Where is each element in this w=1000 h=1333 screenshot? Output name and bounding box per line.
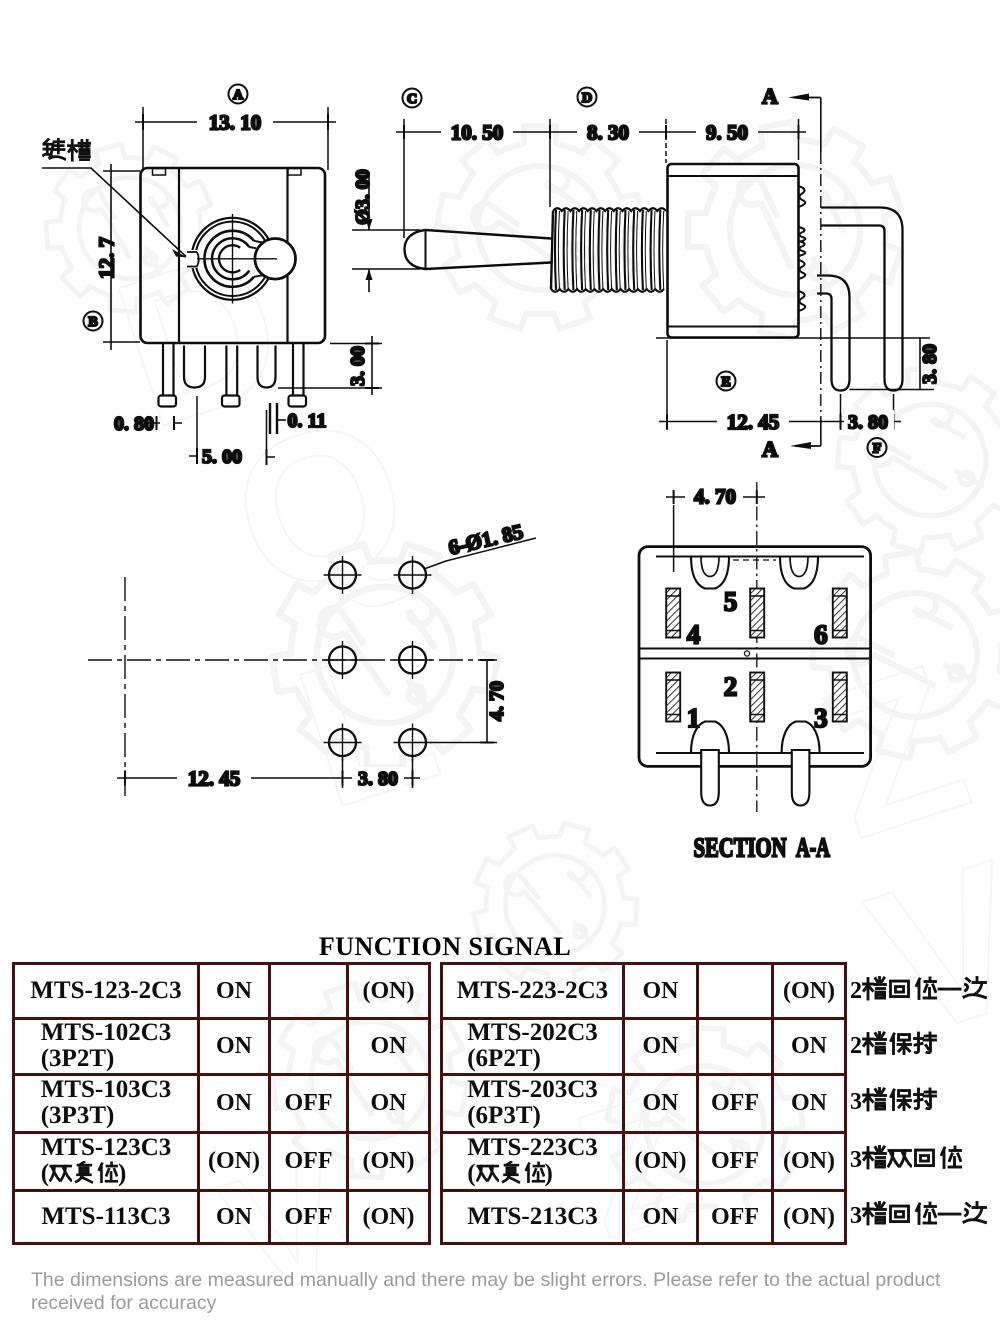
svg-text:F: F xyxy=(873,441,882,456)
datum label B circled xyxy=(84,312,103,331)
svg-text:1: 1 xyxy=(687,703,701,733)
upper pin slots xyxy=(691,557,729,589)
section view body outline xyxy=(639,547,871,767)
svg-text:3. 80: 3. 80 xyxy=(358,768,398,790)
datum label D circled xyxy=(578,88,597,107)
dimension 5.00 post spacing xyxy=(189,396,275,468)
datum label E circled xyxy=(717,372,736,391)
pin tip reference line xyxy=(850,389,935,391)
keyway notch xyxy=(185,250,199,268)
far right-angle pin xyxy=(821,208,903,391)
svg-text:SECTION: SECTION xyxy=(694,832,787,862)
svg-text:C: C xyxy=(407,92,417,107)
svg-text:0. 80: 0. 80 xyxy=(114,413,154,435)
footer note xyxy=(31,1269,981,1315)
datum label A circled xyxy=(229,85,248,104)
svg-text:2: 2 xyxy=(724,671,738,701)
keyway Chinese label (jian cao) xyxy=(43,139,90,160)
svg-text:12. 45: 12. 45 xyxy=(188,766,241,790)
side view switch body xyxy=(668,164,799,338)
SECTION A-A title xyxy=(694,832,831,862)
section hatched contacts rows xyxy=(666,589,680,638)
lower mounting posts xyxy=(691,722,729,806)
dimension 3.00 pin length xyxy=(278,336,382,395)
front view dimension 13.10 with extension lines xyxy=(135,107,336,170)
threaded bushing xyxy=(551,208,666,292)
section arrow A top xyxy=(762,84,821,109)
svg-text:B: B xyxy=(88,315,97,330)
PCB reference line xyxy=(656,337,930,339)
function signal right table xyxy=(440,962,847,1245)
svg-text:5. 00: 5. 00 xyxy=(202,446,242,468)
toggle lever end circle xyxy=(255,238,296,279)
dimension 3.80 vertical pin height xyxy=(919,338,941,390)
toggle crosshair centerlines xyxy=(197,214,277,304)
svg-text:Ø3. 00: Ø3. 00 xyxy=(352,169,374,225)
toggle bushing concentric arcs xyxy=(192,218,274,300)
contact numbers xyxy=(724,586,738,616)
dimensions 12.45 and 3.80 of holes view xyxy=(117,757,420,790)
svg-text:4. 70: 4. 70 xyxy=(694,484,736,508)
svg-text:A-A: A-A xyxy=(796,832,830,862)
section bottom wall xyxy=(656,752,864,754)
dimension diameter 3.00 of lever xyxy=(352,169,420,292)
svg-text:0. 11: 0. 11 xyxy=(288,410,327,432)
svg-text:3. 80: 3. 80 xyxy=(848,412,888,434)
standoff posts with rounded bottoms xyxy=(184,346,276,388)
terminal lugs on body back xyxy=(799,186,806,311)
keyway leader line with label xyxy=(42,168,187,258)
six pin holes with crosshairs xyxy=(324,556,362,594)
dimension 0.80 pin width xyxy=(114,413,182,435)
front view pins and standoff posts xyxy=(159,342,307,407)
svg-text:6-Ø1. 85: 6-Ø1. 85 xyxy=(446,519,525,559)
svg-text:4. 70: 4. 70 xyxy=(486,681,508,721)
svg-text:A: A xyxy=(233,88,244,103)
middle partition wall xyxy=(639,649,871,659)
function signal left table xyxy=(12,962,431,1245)
svg-text:3: 3 xyxy=(814,703,828,733)
datum label C circled xyxy=(403,89,422,108)
svg-text:4: 4 xyxy=(687,619,701,649)
section arrow A bottom xyxy=(762,437,821,462)
hole callout 6-dia1.85 xyxy=(424,519,536,569)
svg-text:12. 7: 12. 7 xyxy=(94,237,118,279)
FUNCTION SIGNAL title xyxy=(245,932,645,962)
section view centerline xyxy=(756,482,758,812)
section top wall xyxy=(656,557,864,561)
svg-text:10. 50: 10. 50 xyxy=(451,120,504,144)
holes view centerlines xyxy=(88,577,497,800)
near right-angle pin xyxy=(817,276,850,391)
svg-text:3. 00: 3. 00 xyxy=(347,346,369,386)
front view switch body xyxy=(141,168,326,343)
svg-text:12. 45: 12. 45 xyxy=(727,410,780,434)
svg-text:6: 6 xyxy=(814,619,828,649)
svg-text:5: 5 xyxy=(724,586,738,616)
Chinese mode labels xyxy=(850,976,987,1005)
dimension 4.70 vertical of holes view xyxy=(430,660,508,743)
svg-text:3. 80: 3. 80 xyxy=(919,344,941,384)
svg-text:E: E xyxy=(721,375,730,390)
dimensions 12.45 and 3.80 bottom xyxy=(659,340,901,434)
svg-text:9. 50: 9. 50 xyxy=(706,120,748,144)
svg-text:13. 10: 13. 10 xyxy=(209,110,262,134)
svg-text:D: D xyxy=(582,91,592,106)
section line A-A xyxy=(820,98,822,447)
side view dimension row 10.50 / 8.30 / 9.50 xyxy=(396,119,806,238)
dimension 12.7 vertical with label B xyxy=(94,164,140,350)
section view dimension 4.70 xyxy=(666,484,765,572)
svg-text:A: A xyxy=(762,437,778,462)
datum label F circled xyxy=(868,438,887,457)
svg-text:8. 30: 8. 30 xyxy=(587,120,629,144)
toggle lever side profile xyxy=(405,230,552,269)
dimension 0.11 xyxy=(270,403,326,434)
svg-text:A: A xyxy=(762,84,778,109)
